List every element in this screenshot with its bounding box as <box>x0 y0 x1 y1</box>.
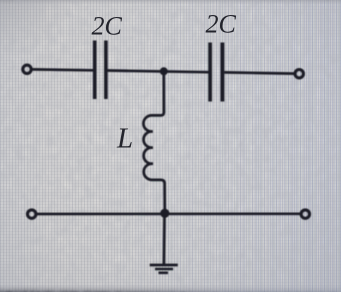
capacitor C1 right plate <box>104 41 108 100</box>
ground bar 3 <box>159 271 169 274</box>
capacitor C1 left plate <box>93 41 97 100</box>
svg-text:L: L <box>116 123 133 155</box>
node B junction dot <box>160 209 169 218</box>
capacitor C2 right plate <box>220 43 224 102</box>
wire: inductor to node B <box>163 183 166 213</box>
node A junction dot <box>160 67 168 75</box>
wire: node A down to inductor <box>162 71 165 112</box>
wire top-left: T1 to C1 <box>32 68 94 72</box>
wire: C2 to T2 <box>224 72 295 73</box>
ground bar 1 <box>150 264 178 267</box>
wire: node B to ground <box>163 213 166 264</box>
bottom wire: T3 to T4 through node B <box>36 212 301 215</box>
capacitor C2 left plate <box>208 43 212 102</box>
inductor L coil <box>143 112 164 183</box>
terminal T4 (bottom-right) <box>301 210 309 218</box>
terminal T3 (bottom-left) <box>28 210 36 218</box>
svg-text:2C: 2C <box>92 12 123 41</box>
terminal T2 (top-right) <box>295 70 303 78</box>
ground bar 2 <box>155 268 173 271</box>
svg-text:2C: 2C <box>206 10 237 39</box>
wire: C1 to C2 through node A <box>108 71 209 73</box>
terminal T1 (top-left) <box>23 65 31 73</box>
